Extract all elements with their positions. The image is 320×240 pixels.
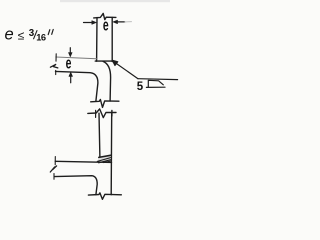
fillet weld top stroke [99, 155, 111, 157]
leader landing line [138, 78, 178, 81]
bottom surface left end tick [55, 70, 57, 74]
lower vertical plate right edge [110, 113, 113, 195]
bottom cut line with break [88, 193, 121, 199]
svg-text:e: e [5, 26, 14, 44]
upper plate bottom end edge [95, 60, 112, 62]
top surface left end tick [55, 54, 57, 61]
lower vertical plate left edge [98, 113, 101, 157]
svg-text:e: e [66, 54, 72, 72]
svg-text:5: 5 [137, 81, 144, 93]
top dimension e: left arrow [84, 22, 95, 24]
horizontal plate bottom surface with corner curve into lower leg [56, 71, 98, 101]
slope symbol [148, 80, 163, 87]
lower vertical plate cap line with break [88, 109, 116, 118]
cap right tick [111, 110, 113, 116]
top surface left end tick [54, 157, 56, 165]
leader line diagonal [114, 62, 139, 79]
horizontal plate left break squiggle [50, 166, 56, 172]
fraction slash of 3/16 [34, 31, 37, 39]
fillet weld hatch lines [97, 158, 110, 162]
upper vertical plate left edge [96, 18, 98, 62]
svg-text:e: e [103, 16, 109, 34]
slope value 5 [137, 81, 144, 93]
slope symbol base line [146, 86, 165, 88]
top dimension e: right arrow [116, 21, 125, 23]
bottom surface left end tick [53, 174, 55, 180]
horizontal plate bottom surface with corner curve into lower leg [54, 176, 97, 195]
horizontal plate top surface [55, 161, 111, 162]
cap left tick [95, 110, 97, 117]
top dimension e: label [103, 16, 109, 34]
horizontal plate top surface (thin extension line) [56, 57, 97, 59]
svg-text:16: 16 [36, 33, 46, 43]
leader arrowhead pointing at weld transition [112, 60, 118, 66]
left dimension e: label [66, 54, 72, 72]
svg-text:≤: ≤ [18, 28, 25, 42]
fillet weld body [97, 155, 111, 162]
left dimension e: up arrow [70, 76, 72, 83]
weld fair curve into lower leg right face [103, 61, 111, 101]
scan smudge along top edge [60, 0, 170, 2]
right arrow faint tail extension [125, 21, 132, 23]
annotation text e <= 3/16 inch [5, 26, 46, 44]
horizontal plate left break squiggle [50, 64, 57, 68]
upper vertical plate right edge [111, 18, 113, 62]
upper vertical plate cap line with break [94, 13, 116, 19]
inch double tick marks [48, 30, 53, 35]
left dimension e: down arrow [69, 48, 71, 55]
bottom cut line with break [91, 100, 119, 108]
